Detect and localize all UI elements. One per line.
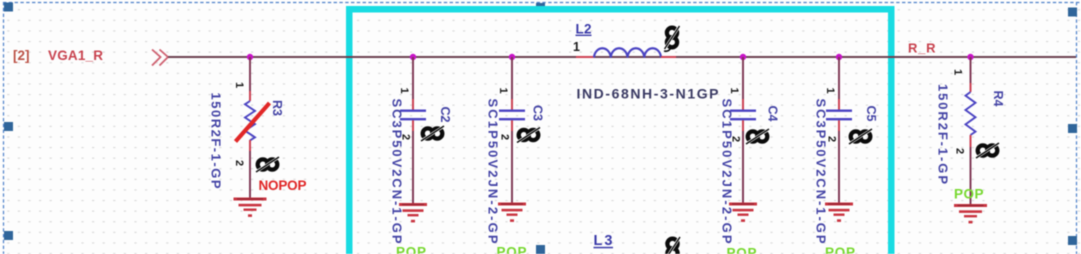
wire: C3 lower branch xyxy=(511,120,513,202)
wire: R4 lower branch xyxy=(970,135,972,204)
svg-text:2: 2 xyxy=(954,148,966,154)
inductor L2 xyxy=(594,48,661,57)
svg-text:1: 1 xyxy=(728,87,740,93)
svg-text:NOPOP: NOPOP xyxy=(259,178,307,193)
wire: C4 lower branch xyxy=(742,120,744,202)
wire: L2 left pin stub xyxy=(576,56,594,58)
svg-text:C4: C4 xyxy=(766,106,780,122)
junction at C2 xyxy=(410,54,416,60)
svg-text:VGA1_R: VGA1_R xyxy=(48,48,103,63)
svg-text:150R2F-1-GP: 150R2F-1-GP xyxy=(936,84,951,184)
svg-text:SC1P50V2JN-2-GP: SC1P50V2JN-2-GP xyxy=(720,99,735,244)
resistor R3 xyxy=(245,101,255,140)
NOPOP marker icon of L2 xyxy=(664,26,680,51)
wire: C4 upper branch xyxy=(742,57,744,110)
ground symbol at C3 xyxy=(498,203,526,222)
wire: C5 lower branch xyxy=(838,120,840,202)
NOPOP marker icon of R3 xyxy=(256,157,279,172)
ground symbol at R4 xyxy=(954,204,987,223)
designator label L3 xyxy=(594,233,614,249)
svg-text:SC1P50V2JN-2-GP: SC1P50V2JN-2-GP xyxy=(486,99,501,244)
wire: C2 lower branch xyxy=(412,120,414,203)
wire: R3 upper branch xyxy=(249,57,251,101)
svg-text:C3: C3 xyxy=(531,105,545,121)
wire: R4 upper branch xyxy=(970,57,972,92)
svg-text:POP: POP xyxy=(727,246,757,254)
svg-text:C2: C2 xyxy=(438,107,452,123)
wire: main horizontal net VGA1_R xyxy=(168,56,1076,58)
svg-text:1: 1 xyxy=(824,87,836,93)
wire: L2 right pin stub xyxy=(661,56,676,58)
wire: R3 lower branch xyxy=(249,140,251,198)
resistor R4 xyxy=(966,92,976,135)
svg-text:POP: POP xyxy=(497,245,527,254)
svg-text:C5: C5 xyxy=(864,106,878,122)
ground symbol at C2 xyxy=(399,203,427,222)
NOPOP marker icon of C2 xyxy=(421,126,444,141)
off-page connector chevron xyxy=(152,50,168,66)
NOPOP marker icon of C4 xyxy=(746,129,769,144)
capacitor C5 xyxy=(826,110,852,121)
capacitor C4 xyxy=(730,110,756,121)
designator label L2 xyxy=(576,22,592,37)
capacitor C2 xyxy=(400,110,426,121)
junction at C5 xyxy=(836,54,842,60)
svg-text:L2: L2 xyxy=(576,22,592,37)
wire: C2 upper branch xyxy=(412,57,414,110)
capacitor C3 xyxy=(499,110,525,121)
NOPOP marker icon of L3 xyxy=(665,237,680,254)
svg-text:IND-68NH-3-N1GP: IND-68NH-3-N1GP xyxy=(577,86,719,102)
ground symbol at C5 xyxy=(825,203,853,222)
svg-text:POP: POP xyxy=(396,245,426,254)
svg-text:R_R: R_R xyxy=(908,41,936,56)
svg-text:1: 1 xyxy=(573,40,580,54)
svg-text:2: 2 xyxy=(233,160,245,166)
svg-text:R4: R4 xyxy=(991,91,1005,107)
NOPOP marker icon of C3 xyxy=(517,128,540,143)
svg-text:1: 1 xyxy=(497,87,509,93)
NOPOP marker icon of C5 xyxy=(849,129,872,144)
svg-text:POP: POP xyxy=(954,187,984,202)
NOPOP strike mark across R3 xyxy=(236,103,270,142)
NOPOP marker icon of R4 xyxy=(976,143,999,158)
ground symbol at R3 xyxy=(234,198,267,217)
svg-text:1: 1 xyxy=(233,82,245,88)
svg-text:1: 1 xyxy=(952,69,964,75)
selection highlight box xyxy=(346,6,895,254)
junction at R4 xyxy=(967,54,973,60)
junction at C3 xyxy=(509,54,515,60)
junction at R3 xyxy=(247,54,253,60)
wire: C3 upper branch xyxy=(511,57,513,110)
svg-text:R3: R3 xyxy=(270,100,284,116)
junction at C4 xyxy=(740,54,746,60)
ground symbol at C4 xyxy=(729,203,757,222)
svg-text:1: 1 xyxy=(398,87,410,93)
svg-text:SC3P50V2CN-1-GP: SC3P50V2CN-1-GP xyxy=(814,99,829,244)
svg-text:[2]: [2] xyxy=(13,48,30,63)
wire: C5 upper branch xyxy=(838,57,840,110)
svg-text:SC3P50V2CN-1-GP: SC3P50V2CN-1-GP xyxy=(390,99,405,244)
svg-text:POP: POP xyxy=(825,245,855,254)
svg-text:150R2F-1-GP: 150R2F-1-GP xyxy=(209,93,224,189)
